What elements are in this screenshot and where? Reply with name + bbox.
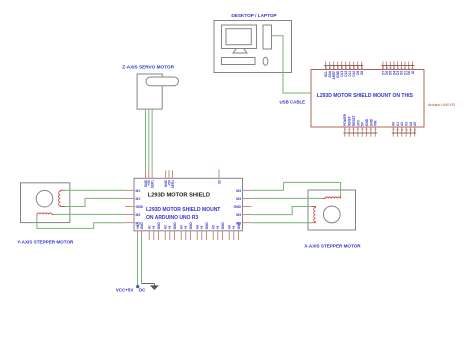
svg-text:L293D MOTOR SHIELD MOUNT ON TH: L293D MOTOR SHIELD MOUNT ON THIS bbox=[317, 93, 414, 99]
svg-text:+5: +5 bbox=[184, 225, 188, 229]
svg-text:S2: S2 bbox=[217, 180, 221, 184]
svg-text:GND: GND bbox=[140, 222, 144, 230]
svg-text:M3: M3 bbox=[236, 213, 241, 217]
svg-text:+5: +5 bbox=[152, 225, 156, 229]
svg-text:+5: +5 bbox=[216, 225, 220, 229]
svg-text:M1: M1 bbox=[136, 197, 141, 201]
svg-text:SER1: SER1 bbox=[171, 180, 175, 189]
svg-text:GND: GND bbox=[205, 222, 209, 230]
svg-text:D8: D8 bbox=[360, 71, 364, 75]
svg-text:SER1: SER1 bbox=[151, 180, 155, 189]
svg-text:A6: A6 bbox=[228, 225, 232, 229]
svg-text:+5: +5 bbox=[168, 225, 172, 229]
svg-text:GND: GND bbox=[136, 205, 144, 209]
svg-text:DC: DC bbox=[139, 288, 146, 293]
svg-text:GND: GND bbox=[173, 222, 177, 230]
svg-text:GND: GND bbox=[221, 222, 225, 230]
svg-text:DESKTOP / LAPTOP: DESKTOP / LAPTOP bbox=[231, 13, 276, 18]
svg-text:USB CABLE: USB CABLE bbox=[280, 100, 306, 105]
svg-text:Y-AXIS STEPPER MOTOR: Y-AXIS STEPPER MOTOR bbox=[17, 239, 74, 244]
svg-text:A5: A5 bbox=[413, 122, 417, 126]
svg-text:+5: +5 bbox=[232, 225, 236, 229]
svg-text:X-AXIS STEPPER MOTOR: X-AXIS STEPPER MOTOR bbox=[304, 243, 361, 248]
svg-text:Arduino UNO R3: Arduino UNO R3 bbox=[428, 103, 455, 107]
svg-text:A1: A1 bbox=[148, 225, 152, 229]
svg-text:L293D MOTOR SHIELD MOUNT: L293D MOTOR SHIELD MOUNT bbox=[146, 207, 220, 213]
svg-text:Z-AXIS SERVO MOTOR: Z-AXIS SERVO MOTOR bbox=[122, 64, 174, 69]
svg-text:M2: M2 bbox=[136, 213, 141, 217]
svg-text:M4: M4 bbox=[236, 197, 241, 201]
svg-text:A2: A2 bbox=[164, 225, 168, 229]
svg-text:GND: GND bbox=[233, 205, 241, 209]
svg-text:VIN: VIN bbox=[374, 120, 378, 126]
svg-text:+5: +5 bbox=[200, 225, 204, 229]
svg-text:VCC+5V: VCC+5V bbox=[116, 288, 134, 293]
svg-text:IO: IO bbox=[411, 70, 415, 74]
svg-text:GND: GND bbox=[237, 222, 241, 230]
svg-text:A5: A5 bbox=[212, 225, 216, 229]
svg-text:L293D MOTOR SHIELD: L293D MOTOR SHIELD bbox=[148, 192, 210, 198]
svg-text:A4: A4 bbox=[196, 225, 200, 229]
svg-text:GND: GND bbox=[157, 222, 161, 230]
svg-text:ON ARDUINO UNO R3: ON ARDUINO UNO R3 bbox=[146, 215, 199, 221]
svg-text:A3: A3 bbox=[180, 225, 184, 229]
svg-text:GND: GND bbox=[189, 222, 193, 230]
svg-text:M1: M1 bbox=[136, 189, 141, 193]
svg-text:M4: M4 bbox=[236, 189, 241, 193]
